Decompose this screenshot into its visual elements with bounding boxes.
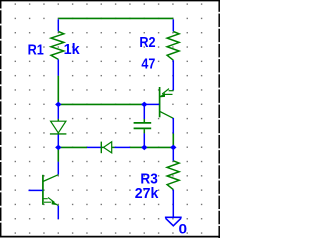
svg-text:0: 0 (179, 222, 188, 237)
junction node D (55, 145, 61, 151)
junction node B2 (141, 145, 147, 151)
junction node C (170, 145, 176, 151)
wire D2 to node B2 (130, 146, 144, 148)
wire node A to node B (58, 103, 144, 105)
svg-text:27k: 27k (135, 186, 159, 202)
wire R1 to node A (57, 76, 59, 105)
svg-text:R3: R3 (140, 171, 157, 187)
capacitor C1 (134, 104, 152, 147)
resistor R1 (28, 19, 81, 76)
wire node D down to Q1 collector (57, 147, 59, 161)
transistor Q2 PNP (144, 87, 173, 134)
resistor R3 (135, 147, 179, 217)
diode D1 vertical (50, 104, 67, 147)
svg-text:R2: R2 (139, 35, 155, 51)
wire Q2 collector to node C (172, 134, 174, 148)
junction node A (55, 102, 61, 108)
diode D2 horizontal (87, 142, 130, 154)
svg-text:47: 47 (141, 57, 155, 73)
transistor Q1 NPN (29, 162, 59, 220)
svg-text:1k: 1k (64, 42, 81, 58)
wire node B2 to node C (144, 146, 173, 148)
wire node D to D2 (58, 146, 87, 148)
wire top rail (58, 17, 173, 19)
ground 0 (165, 217, 188, 236)
junction node B (141, 102, 147, 108)
svg-text:R1: R1 (28, 42, 44, 58)
resistor R2 (139, 19, 179, 90)
